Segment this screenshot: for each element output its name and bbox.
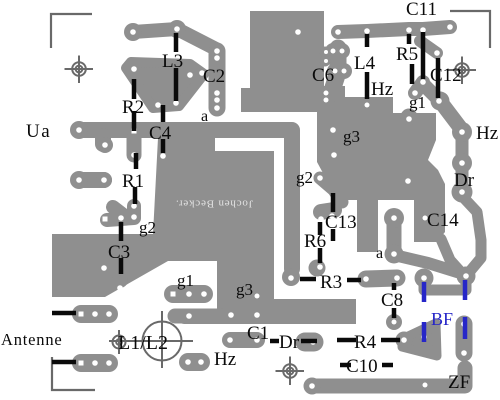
board corner mark top-left <box>51 14 92 48</box>
BF connector pin 2 <box>463 280 468 300</box>
copper plane top-right (C6 region) <box>241 11 324 112</box>
capacitor C12 leads <box>423 32 438 98</box>
svg-text:Dr: Dr <box>279 332 300 353</box>
svg-text:Antenne: Antenne <box>1 330 63 349</box>
pad Ua finger1 <box>70 121 88 139</box>
svg-text:R1: R1 <box>122 171 144 192</box>
svg-text:C10: C10 <box>346 356 378 377</box>
svg-text:g2: g2 <box>139 218 156 237</box>
svg-text:C14: C14 <box>427 210 459 231</box>
pad C8 bottom <box>386 314 402 330</box>
resistor R5 leads <box>409 34 412 84</box>
pads Dr-right pair <box>305 333 314 352</box>
svg-text:C1: C1 <box>247 323 269 344</box>
pad Dr right <box>452 182 473 203</box>
wire Hz/Dr chain right <box>456 130 469 192</box>
pads antenna row 1 <box>81 305 109 323</box>
wire plane corner to BF pad <box>441 239 459 270</box>
resistor R1 leads <box>135 153 136 204</box>
svg-text:C4: C4 <box>149 123 172 144</box>
capacitor C8 leads <box>392 283 397 318</box>
svg-text:Hz: Hz <box>214 349 236 370</box>
svg-text:C12: C12 <box>430 65 462 86</box>
copper plane central (ground area) <box>52 138 356 324</box>
choke Dr leads <box>270 339 317 344</box>
svg-text:L1/L2: L1/L2 <box>118 332 168 354</box>
wire a-node elbow to BF pad <box>394 255 457 272</box>
pad bump below top finger <box>95 136 111 144</box>
pad Ua finger2-2 <box>96 172 112 188</box>
svg-text:R5: R5 <box>396 44 418 65</box>
fiducial crosshair bottom-middle <box>276 357 305 386</box>
pad at plane notch bottom <box>401 109 418 126</box>
pads g1 strip <box>173 285 204 303</box>
coil outline L1/L2 circle <box>109 311 193 368</box>
wire Dr pad down to BF net <box>462 196 481 276</box>
svg-text:C3: C3 <box>108 242 130 263</box>
capacitor C10 leads <box>340 363 393 368</box>
resistor R3 leads <box>300 279 361 280</box>
resistor R6 leads <box>318 222 323 263</box>
wire C1/Dr row <box>230 332 257 348</box>
resistor R4 leads <box>337 338 400 343</box>
pads antenna row 2 <box>81 354 109 372</box>
node strip C2/a column <box>209 51 226 108</box>
svg-text:g2: g2 <box>296 168 313 187</box>
board corner mark top-right <box>450 11 490 48</box>
pad C3 bottom <box>112 272 128 288</box>
wire bottom rail <box>312 368 465 386</box>
svg-text:C11: C11 <box>406 0 437 20</box>
wire top-right bus T1 <box>338 27 450 32</box>
pads Hz pair bottom <box>188 353 201 371</box>
wire Ua top finger + bus to node strip <box>79 130 292 269</box>
svg-text:ZF: ZF <box>448 372 470 393</box>
svg-text:C2: C2 <box>203 66 225 87</box>
antenna jumper top <box>52 311 76 316</box>
pads R3/C8 pair <box>366 278 397 279</box>
pads g2/C3 cluster <box>107 206 134 220</box>
fiducial crosshair top-right <box>448 57 477 85</box>
svg-text:R2: R2 <box>122 97 144 118</box>
svg-text:C8: C8 <box>381 290 403 311</box>
svg-text:L4: L4 <box>354 53 376 74</box>
copper junction C6 column to plane <box>317 86 345 111</box>
half-pad on C6 plane edge upper <box>320 47 331 58</box>
pad R6 bottom <box>309 260 326 277</box>
pads C13/R6 cluster <box>321 210 334 212</box>
svg-text:g1: g1 <box>409 93 426 112</box>
pad a-node <box>385 245 404 264</box>
capacitor C13 leads <box>331 193 336 241</box>
wire Ua lower finger <box>79 172 104 188</box>
svg-text:Ua: Ua <box>26 121 51 142</box>
BF connector pin 4 <box>463 317 468 339</box>
pad BF left <box>415 269 434 288</box>
pad R4 mid <box>419 332 429 342</box>
copper triangle R4 region <box>402 323 437 356</box>
pad Ua finger2-1 <box>70 171 88 189</box>
wire arm to plane (g1 row) <box>175 309 220 324</box>
pad L3 right <box>168 20 186 38</box>
capacitor C3 leads <box>119 222 124 274</box>
pad net strip end <box>282 268 300 286</box>
svg-text:a: a <box>201 108 208 125</box>
svg-text:L3: L3 <box>162 51 183 72</box>
pad BF right <box>457 267 476 286</box>
pad L3 left <box>124 23 142 41</box>
wire g2 wedge to plane <box>320 178 342 202</box>
copper plane right (g3 region) <box>317 97 445 252</box>
BF connector pin 1 <box>422 282 427 302</box>
svg-text:g3: g3 <box>236 280 253 299</box>
pads C6 side <box>333 51 344 71</box>
wire diagonal to Hz pad <box>440 101 462 130</box>
antenna jumper bottom <box>52 360 76 365</box>
pad Hz right <box>452 122 472 142</box>
svg-text:R3: R3 <box>320 272 342 293</box>
svg-text:Dr: Dr <box>454 170 475 191</box>
pad bottom rail left <box>304 378 321 395</box>
pad C14 top <box>384 208 404 228</box>
inductor L3 leads <box>174 33 179 101</box>
svg-text:g1: g1 <box>177 271 194 290</box>
svg-text:Hz: Hz <box>371 79 393 100</box>
wire C12 stub <box>420 41 437 53</box>
pads g1 cluster top-right <box>415 82 438 99</box>
resistor R2 leads <box>132 79 137 131</box>
capacitor C4 leads <box>161 105 166 153</box>
svg-text:Hz: Hz <box>476 123 498 144</box>
svg-text:R4: R4 <box>354 332 377 353</box>
svg-text:C6: C6 <box>312 65 334 86</box>
wire C14 vertical in notch <box>387 220 402 252</box>
svg-text:BF: BF <box>431 309 453 329</box>
wire BF upper U <box>424 276 466 290</box>
copper triangle Q1 region <box>126 62 204 108</box>
board corner mark bottom-left <box>52 357 95 390</box>
node ZF strip <box>456 324 473 353</box>
hole pads <box>130 29 136 35</box>
wire L3 top trace <box>133 29 216 49</box>
pad g1 top-right <box>431 92 450 111</box>
fiducial crosshair small left of L1/L2 <box>113 330 126 354</box>
svg-text:a: a <box>376 245 383 262</box>
pad bump C4-left <box>127 138 142 155</box>
svg-text:g3: g3 <box>343 127 360 146</box>
BF connector pin 3 <box>422 322 427 342</box>
pad R4 left <box>396 332 413 349</box>
fiducial crosshair top-left <box>65 56 94 84</box>
inductor L4 leads <box>365 34 370 99</box>
svg-text:Jochen Becker.: Jochen Becker. <box>175 198 253 210</box>
half-pad on C6 plane edge lower <box>320 56 331 67</box>
node C6 column <box>331 48 338 94</box>
pad bump below finger1 <box>97 137 113 153</box>
pad mid chain <box>452 153 472 173</box>
svg-text:C13: C13 <box>325 212 357 233</box>
svg-text:R6: R6 <box>304 231 326 252</box>
